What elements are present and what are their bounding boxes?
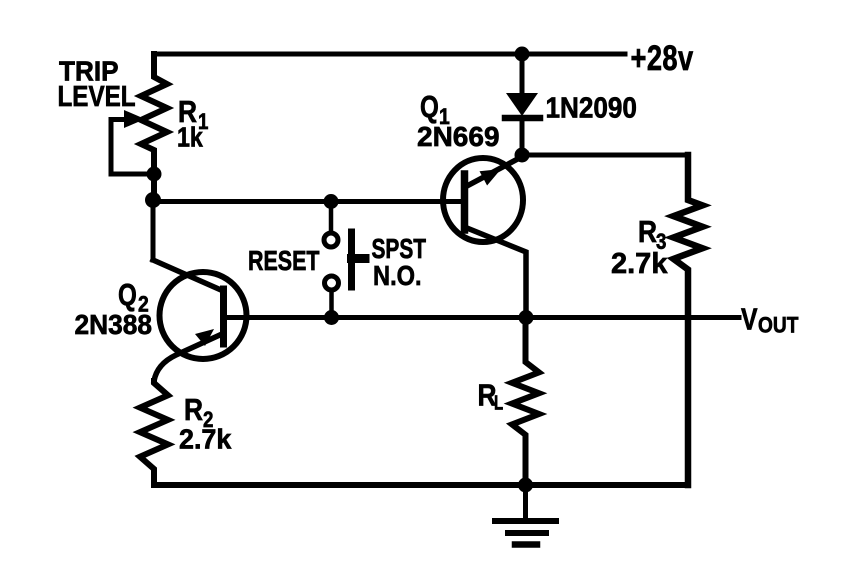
label VOUT bbox=[741, 302, 758, 336]
resistor R2 bbox=[140, 381, 168, 485]
svg-text:L: L bbox=[494, 391, 503, 414]
label 1N2090 bbox=[546, 91, 637, 124]
node top rail to diode bbox=[515, 47, 530, 62]
label LEVEL bbox=[58, 80, 136, 112]
svg-text:+28v: +28v bbox=[631, 39, 694, 78]
switch RESET terminals bbox=[329, 201, 334, 232]
svg-text:V: V bbox=[741, 302, 758, 336]
potentiometer R1 body bbox=[141, 54, 167, 201]
transistor Q1 circle bbox=[443, 158, 523, 242]
svg-text:1N2090: 1N2090 bbox=[546, 91, 637, 124]
transistor Q1 emitter lead with arrow bbox=[465, 154, 527, 187]
label Q2 bbox=[118, 277, 137, 312]
label +28v bbox=[631, 39, 694, 78]
label N.O. bbox=[373, 261, 422, 291]
label Q1 bbox=[420, 89, 439, 124]
ground symbol bbox=[523, 485, 528, 518]
label R3 bbox=[638, 215, 657, 249]
svg-text:SPST: SPST bbox=[372, 234, 427, 264]
transistor Q2 base bar bbox=[220, 289, 227, 344]
svg-text:2.7k: 2.7k bbox=[611, 248, 668, 280]
wire top +28v rail bbox=[154, 52, 625, 57]
label 2.7k R2 bbox=[179, 423, 232, 455]
label 2.7k R3 bbox=[611, 248, 668, 280]
svg-text:2N669: 2N669 bbox=[417, 121, 500, 152]
label 1k bbox=[177, 123, 203, 153]
node RESET bottom bbox=[324, 310, 339, 325]
svg-text:2N388: 2N388 bbox=[75, 308, 153, 340]
label 2N388 bbox=[75, 308, 153, 340]
transistor Q2 emitter lead with arrow bbox=[154, 334, 222, 381]
svg-text:1k: 1k bbox=[177, 123, 203, 153]
label R2 bbox=[184, 393, 203, 427]
label TRIP bbox=[59, 56, 118, 87]
svg-text:OUT: OUT bbox=[758, 313, 799, 338]
svg-text:RESET: RESET bbox=[248, 247, 320, 277]
svg-text:LEVEL: LEVEL bbox=[58, 80, 136, 112]
node R1 bottom wiper junction bbox=[147, 167, 162, 182]
wire emitter rail to R3 bbox=[522, 153, 688, 158]
label RL bbox=[478, 379, 497, 413]
wire base rail bbox=[153, 199, 464, 204]
label RESET bbox=[248, 247, 320, 277]
label SPST bbox=[372, 234, 427, 264]
node ground junction bbox=[518, 478, 533, 493]
node Vout / Q1 collector bbox=[519, 310, 534, 325]
potentiometer R1 wiper arrow bbox=[111, 120, 150, 175]
resistor RL bbox=[512, 318, 539, 486]
svg-text:2.7k: 2.7k bbox=[179, 423, 232, 455]
wire left vertical to Q2 collector bbox=[151, 202, 156, 261]
resistor R3 bbox=[674, 155, 703, 485]
label R1 bbox=[178, 95, 197, 129]
label 2N669 bbox=[417, 121, 500, 152]
transistor Q2 circle bbox=[160, 272, 247, 359]
transistor Q1 collector lead bbox=[465, 227, 527, 318]
node RESET top bbox=[324, 194, 339, 209]
wire bottom rail bbox=[154, 482, 688, 488]
svg-text:R: R bbox=[638, 215, 657, 249]
wire Vout rail bbox=[224, 315, 740, 320]
svg-text:Q: Q bbox=[118, 277, 137, 312]
transistor Q2 collector lead bbox=[153, 260, 221, 290]
svg-text:Q: Q bbox=[420, 89, 439, 124]
transistor Q1 base bar bbox=[461, 174, 469, 230]
switch RESET actuator bar bbox=[348, 232, 355, 287]
diode 1N2090 bbox=[520, 54, 525, 94]
svg-text:N.O.: N.O. bbox=[373, 261, 422, 291]
node base rail left bbox=[145, 192, 161, 208]
node diode bottom / emitter rail bbox=[515, 148, 530, 163]
